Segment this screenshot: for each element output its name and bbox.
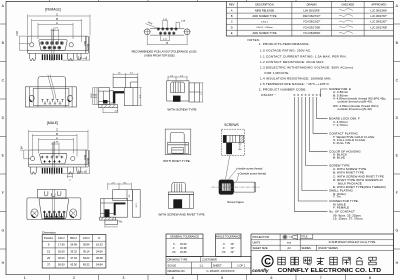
lower side view right tall body <box>132 190 140 218</box>
male right dimension 7.90 <box>86 150 88 165</box>
svg-text:LJC 05/13/06': LJC 05/13/06' <box>371 8 388 12</box>
pcb pads top row <box>157 28 177 31</box>
zone letters left A-H <box>1 4 4 265</box>
svg-text:±0.60: ±0.60 <box>180 242 187 246</box>
svg-text:Outside screw thread: Outside screw thread <box>240 172 267 176</box>
REVISION TABLE <box>226 2 393 37</box>
svg-text:1.4 INSULATION RESISTANCE: 100: 1.4 INSULATION RESISTANCE: 1000MΩ MIN. <box>260 77 332 81</box>
svg-text:1: 1 <box>24 276 26 280</box>
svg-text:connfly: connfly <box>252 268 269 273</box>
screw type top dims <box>168 76 187 81</box>
svg-text:A4: A4 <box>287 246 291 250</box>
female solder pin comb <box>42 54 63 60</box>
screw type screw profile <box>171 82 185 93</box>
dimension table grid <box>42 235 106 269</box>
zone tick marks top <box>49 0 345 2</box>
general tolerance box <box>166 234 203 257</box>
male right dimension 12.50 <box>62 150 89 174</box>
svg-text:1:1: 1:1 <box>199 263 203 267</box>
side view top dims <box>113 73 138 78</box>
rivet view inner insert <box>172 148 184 154</box>
dimension table row 37 <box>47 263 103 267</box>
svg-text:YCH 09/21/07': YCH 09/21/07' <box>303 20 321 24</box>
svg-text:63.50: 63.50 <box>70 263 77 267</box>
svg-text:1.3 DIELECTRIC WITHSTANDING VO: 1.3 DIELECTRIC WITHSTANDING VOLTAGE: 500… <box>260 66 353 70</box>
svg-text:DRAWING TYPE: DRAWING TYPE <box>168 258 188 262</box>
bottom view pins row 2 <box>44 101 61 104</box>
pcb pad leader phi 0.8 <box>146 24 159 29</box>
side view pcb board <box>99 105 118 108</box>
svg-text:6: 6 <box>270 276 272 280</box>
svg-text:F: F <box>396 191 398 195</box>
pcb B dimension <box>147 35 187 45</box>
svg-text:24.99: 24.99 <box>70 243 77 247</box>
svg-text:1.1 CONTACT CURRENT RATING: 1.: 1.1 CONTACT CURRENT RATING: 1.5A MAX. PE… <box>260 55 347 59</box>
revision row A <box>231 8 388 12</box>
svg-text:C: C <box>56 128 58 132</box>
bottom view outer shell <box>25 87 76 107</box>
svg-text:DWJ 06/27/07': DWJ 06/27/07' <box>303 14 321 18</box>
svg-text:Φ1±.40: Φ1±.40 <box>79 171 87 174</box>
svg-text:SHEET: SHEET <box>213 263 222 267</box>
tree drop line 5 color of housing <box>309 97 327 151</box>
zone letters right A-H <box>395 4 398 265</box>
screw rivet head <box>172 183 186 193</box>
screws shaft section <box>226 143 232 155</box>
svg-text:.X: .X <box>222 246 225 250</box>
connfly circular logo <box>262 255 273 266</box>
svg-text:ADD SCREW TYPE: ADD SCREW TYPE <box>252 14 276 18</box>
svg-text:.XX: .XX <box>221 250 225 254</box>
svg-text:CUSTOMER: CUSTOMER <box>202 258 217 262</box>
zone tick marks right <box>394 24 400 249</box>
svg-text:C−DS1037−XXXXXXXX: C−DS1037−XXXXXXXX <box>206 269 234 273</box>
screws dim mark <box>238 144 241 150</box>
dimension A line <box>38 23 73 39</box>
mating face bottom band <box>44 218 65 220</box>
left dimension 2.84 <box>19 36 30 50</box>
pcb pads bottom row <box>159 32 175 35</box>
svg-text:CHECKED: CHECKED <box>341 3 354 7</box>
svg-text:D: D <box>231 25 233 29</box>
rivet view rivet head <box>170 132 184 142</box>
svg-text:±0.25: ±0.25 <box>180 250 187 254</box>
svg-text:T: Tin: T: Tin <box>333 195 341 199</box>
svg-text:X: X <box>316 93 318 97</box>
screw shaft <box>234 182 256 192</box>
svg-text:DRAWING NO.: DRAWING NO. <box>168 269 186 273</box>
WITH SCREW TYPE SIDE VIEW <box>167 75 204 111</box>
svg-text:Screw figure: Screw figure <box>227 200 244 204</box>
screws head section <box>223 135 240 142</box>
WITH SCREW AND RIVET TYPE SIDE VIEW <box>158 183 204 217</box>
svg-text:SCALE: SCALE <box>168 263 177 267</box>
svg-text:SERIES: SERIES <box>301 246 311 250</box>
RIGHT ANGLE SIDE VIEW UPPER <box>91 73 142 113</box>
male leg dim 2 <box>67 175 72 179</box>
male left screw hole <box>30 157 34 161</box>
lower side view foot <box>105 220 118 224</box>
male left bracket leg <box>30 167 36 174</box>
male pins top row <box>41 156 64 159</box>
screw socket U left <box>44 191 48 196</box>
screw type right body <box>189 83 200 102</box>
female left bracket leg <box>30 54 36 61</box>
angle tolerance box <box>216 234 242 257</box>
svg-text:B: B <box>56 17 58 21</box>
svg-text:DESCRIPTION: DESCRIPTION <box>255 3 273 7</box>
svg-text:4.5±0.2→4.80mm: 4.5±0.2→4.80mm <box>256 27 273 29</box>
screw type board lock black <box>173 96 181 102</box>
svg-text:YCH 03/17/08': YCH 03/17/08' <box>303 25 321 29</box>
svg-text:1.2 CONTACT RESISTANCE: 20mΩ M: 1.2 CONTACT RESISTANCE: 20mΩ MAX. <box>260 60 325 64</box>
dimension B line <box>32 19 82 42</box>
svg-text:38.38: 38.38 <box>96 256 103 260</box>
WITH RIVET TYPE SIDE VIEW <box>163 129 191 163</box>
svg-text:24.66: 24.66 <box>96 249 103 253</box>
section cut lines through male view <box>52 142 55 175</box>
FEMALE CONNECTOR FRONT VIEW <box>16 8 90 61</box>
svg-text:X.: X. <box>223 242 226 246</box>
SCREWS CROSS SECTION DETAIL <box>221 123 266 182</box>
pcb right mounting hole <box>184 29 190 35</box>
lower side view front body <box>101 199 128 218</box>
svg-text:7: 7 <box>320 276 322 280</box>
TITLE BLOCK <box>251 234 394 275</box>
svg-text:UNITS: UNITS <box>253 241 261 245</box>
tree drop line 8 screw dim <box>320 89 327 97</box>
chinese company name glyph blocks <box>278 257 376 265</box>
side view rear housing <box>113 78 138 88</box>
svg-text:LJC 06/27/07': LJC 06/27/07' <box>371 14 388 18</box>
side view bent pin <box>113 91 124 103</box>
dimension table row 9 <box>48 243 103 247</box>
svg-text:26.50: 26.50 <box>58 249 65 253</box>
female right screw hole <box>69 43 73 47</box>
mating face trapezoid <box>39 199 69 219</box>
svg-text:DS1037 SERIES: DS1037 SERIES <box>318 246 338 250</box>
screw rivet mid band <box>168 192 193 195</box>
female right dimension 12.50 <box>63 36 90 60</box>
svg-text:mm: mm <box>287 242 291 245</box>
female d-sub trapezoid insert <box>39 39 67 50</box>
svg-text:33.32: 33.32 <box>70 249 77 253</box>
side view 3.2 dim <box>103 108 118 113</box>
side view board lock blob <box>103 100 108 104</box>
bottom view pins row 1 <box>41 99 63 102</box>
screw centerline <box>212 186 260 188</box>
revision table grid <box>226 2 393 37</box>
svg-text:DRAWN: DRAWN <box>307 3 317 7</box>
DIMENSION TABLE <box>42 230 106 268</box>
svg-text:B: B <box>231 14 233 18</box>
tree drop line 6 contact plating <box>313 97 328 133</box>
screw type main body <box>167 81 189 101</box>
svg-text:12.50: 12.50 <box>87 157 90 164</box>
side view right body <box>124 88 138 106</box>
pcb pitch dimension below <box>161 35 170 41</box>
tree drop line 1 no of contact <box>295 97 328 212</box>
svg-text:CONNFLY ELECTRONIC CO. LTD: CONNFLY ELECTRONIC CO. LTD <box>278 268 382 274</box>
FEMALE BOTTOM VIEW <box>25 75 76 107</box>
svg-text:39.14: 39.14 <box>83 249 90 253</box>
screw socket U middle <box>52 193 55 196</box>
svg-text:Inside screw thread: Inside screw thread <box>238 166 263 170</box>
dimension table row 25 <box>47 256 103 260</box>
svg-text:1.0 VOLTAGE RATING: 250V AC.: 1.0 VOLTAGE RATING: 250V AC. <box>260 48 311 52</box>
svg-text:53.04: 53.04 <box>83 256 90 260</box>
rivet view lower body <box>168 145 189 154</box>
pcb pitch dimensions above <box>163 20 180 28</box>
svg-text:69.32: 69.32 <box>83 263 90 267</box>
tree drop line 2 connector type <box>298 97 327 201</box>
mating face right screw <box>70 209 77 218</box>
svg-text:15: 15pos. 37: 37pos.: 15: 15pos. 37: 37pos. <box>333 217 364 221</box>
male left dimension 2.84 <box>24 150 31 159</box>
screws detail box <box>221 129 244 155</box>
svg-text:C±0.2: C±0.2 <box>83 236 90 240</box>
svg-text:5: 5 <box>221 276 223 280</box>
bottom view insulator outline <box>33 89 69 106</box>
svg-text:LJC 03/17/08': LJC 03/17/08' <box>371 25 388 29</box>
female right bracket leg <box>68 54 74 61</box>
male pins bottom row <box>43 160 61 163</box>
male solder pin comb <box>42 168 63 174</box>
revision table header <box>229 3 386 7</box>
svg-text:D-SUB RIGHT ANGLE(7.2mm) TYPE: D-SUB RIGHT ANGLE(7.2mm) TYPE <box>329 240 376 244</box>
svg-text:5.8±0.2: 5.8±0.2 <box>261 21 269 23</box>
svg-text:WITH RIVET TYPE: WITH RIVET TYPE <box>163 159 190 163</box>
svg-text:WITH SCREW TYPE: WITH SCREW TYPE <box>167 108 196 112</box>
lower side view board lock blob <box>105 209 110 217</box>
svg-text:8: 8 <box>369 276 371 280</box>
svg-text:3: 3 <box>122 276 124 280</box>
svg-text:F: F <box>2 191 4 195</box>
revision row D <box>231 25 388 29</box>
male boardlock pin <box>77 167 81 173</box>
svg-text:16.33: 16.33 <box>96 243 103 247</box>
svg-text:C: C <box>231 20 233 24</box>
title block outline <box>251 234 394 275</box>
male right screw hole <box>71 157 75 161</box>
svg-text:6: FULL TIN: 6: FULL TIN <box>333 141 350 145</box>
projection symbol <box>282 235 297 240</box>
PCB LAYOUT RECOMMENDATION VIEW <box>132 19 197 58</box>
zone tick marks left <box>0 24 6 249</box>
bottom view right hole <box>68 95 73 101</box>
svg-text:X: X <box>297 93 299 97</box>
svg-text:12.50: 12.50 <box>87 43 90 50</box>
svg-text:17.90: 17.90 <box>58 243 65 247</box>
svg-text:PROJECTION: PROJECTION <box>253 235 270 239</box>
svg-text:WITH SCREW AND RIVET TYPE: WITH SCREW AND RIVET TYPE <box>158 213 204 217</box>
female boardlock pin <box>77 54 81 60</box>
svg-text:A: A <box>56 136 58 140</box>
mating face section lines <box>52 189 55 219</box>
revision row B <box>231 14 388 18</box>
svg-text:[MALE]: [MALE] <box>47 121 58 125</box>
bottom view ear divisions <box>30 87 73 107</box>
TOLERANCE BLOCK <box>166 234 251 275</box>
screw rivet black block <box>173 199 182 208</box>
tree drop line 3 shell plating <box>302 97 328 191</box>
bottom view rear hood <box>38 77 66 87</box>
zone tick marks bottom <box>49 275 345 280</box>
mating face body <box>27 198 81 220</box>
svg-text:ANGLE TOLERANCE: ANGLE TOLERANCE <box>216 235 242 239</box>
tree drop line 4 screw type <box>306 97 328 166</box>
PRODUCT CODE TREE LINES <box>295 89 328 212</box>
rivet view mid band <box>168 142 189 145</box>
lower side view rear housing <box>113 190 133 201</box>
svg-text:X: X <box>312 93 314 97</box>
svg-text:D: D <box>98 236 100 240</box>
svg-text:SCREWS: SCREWS <box>224 123 239 127</box>
svg-text:Dimension: Dimension <box>42 230 56 234</box>
pcb outline band <box>150 28 184 35</box>
svg-text:SHEET SIZE: SHEET SIZE <box>253 246 268 250</box>
svg-text:LJH 05/13/06': LJH 05/13/06' <box>303 8 320 12</box>
svg-text:G: G <box>395 229 398 233</box>
screws nut hatched <box>240 135 244 142</box>
dimension table header row <box>44 236 100 240</box>
revision row E <box>231 31 321 35</box>
bottom view left hole <box>29 95 34 101</box>
svg-text:A±0.2: A±0.2 <box>58 236 65 240</box>
svg-text:G: G <box>1 229 4 233</box>
svg-text:A: A <box>56 21 58 25</box>
svg-text:±0.38: ±0.38 <box>180 246 187 250</box>
svg-text:7: 3.70mm: 7: 3.70mm <box>333 123 348 127</box>
male dimension A <box>39 138 74 153</box>
svg-text:C: C <box>264 255 271 266</box>
svg-text:4: 4 <box>172 276 174 280</box>
svg-text:X: X <box>304 93 306 97</box>
svg-text:1. PRODUCTS PERFORMANCE:: 1. PRODUCTS PERFORMANCE: <box>259 42 310 46</box>
svg-text:54.84: 54.84 <box>96 263 103 267</box>
svg-text:(VIEW FROM TOP SIDE): (VIEW FROM TOP SIDE) <box>144 54 175 58</box>
male dimension C <box>29 130 89 150</box>
svg-text:LJC 09/21/07': LJC 09/21/07' <box>371 20 388 24</box>
svg-text:±2°: ±2° <box>231 250 235 254</box>
revision row C <box>231 20 388 24</box>
svg-text:APPROVED: APPROVED <box>371 3 386 7</box>
MATING FACE VIEW WITH SCREWS <box>27 189 81 219</box>
PRODUCT CODE TREE LABELS <box>329 87 386 221</box>
pcb left mounting hole <box>144 29 150 35</box>
female contacts top row <box>41 42 64 45</box>
section cut lines through female view <box>51 29 54 62</box>
screw head black frame <box>219 180 234 195</box>
svg-text:NEW RELEASE: NEW RELEASE <box>255 8 275 12</box>
side view mid block <box>110 91 113 104</box>
svg-text:B: B <box>56 132 58 136</box>
svg-text:E: E <box>231 31 233 35</box>
tree drop line 7 board lock <box>317 97 328 119</box>
drawing info rows box <box>166 257 251 275</box>
svg-text:2: 2 <box>73 276 75 280</box>
lower side view 3.2 dim <box>105 221 122 228</box>
lower side view bent pin <box>114 203 126 216</box>
rivet view right column <box>184 142 186 154</box>
svg-text:A: A <box>231 8 233 12</box>
zone numbers bottom 1-8 <box>24 276 371 280</box>
screw type right dim 7.2 <box>200 83 203 102</box>
svg-text:RECOMMENDED PCB LAYOUT(TOLERAN: RECOMMENDED PCB LAYOUT(TOLERANCE ±0.05) <box>132 49 197 53</box>
svg-text:DS1037 −: DS1037 − <box>261 93 276 97</box>
female contacts bottom row <box>43 46 61 49</box>
dimension 2.77 <box>51 29 59 43</box>
svg-text:2.84: 2.84 <box>21 146 24 151</box>
side view left dims rotated <box>93 88 99 105</box>
screw rivet lower body <box>168 195 193 209</box>
male body shell <box>29 150 89 167</box>
NOTES TEXT BLOCK <box>248 38 354 97</box>
svg-text:1.5 TEMPERATURE RANGE: −45°C~+: 1.5 TEMPERATURE RANGE: −45°C~+105°C. <box>260 82 330 86</box>
svg-text:X: X <box>308 93 310 97</box>
svg-text:REV: REV <box>229 3 235 7</box>
SCREW FIGURE <box>212 180 260 204</box>
svg-text:C: C <box>56 12 58 16</box>
svg-text:X.: X. <box>173 242 176 246</box>
svg-text:2.77: 2.77 <box>54 141 59 144</box>
svg-text:outside thread unj(N-40): outside thread unj(N-40) <box>338 107 372 111</box>
female body shell <box>28 36 89 53</box>
MALE CONNECTOR FRONT VIEW <box>21 121 91 182</box>
RIGHT ANGLE SIDE VIEW LOWER <box>100 182 141 227</box>
mating face left screw <box>31 209 38 218</box>
side view front body <box>99 88 110 105</box>
screw socket U right <box>57 191 61 196</box>
screw sockets housing <box>38 189 67 198</box>
svg-text:.XX: .XX <box>171 250 175 254</box>
svg-text:ADD SCREW TYPE: ADD SCREW TYPE <box>252 31 276 35</box>
svg-text:[FEMALE]: [FEMALE] <box>45 8 61 12</box>
svg-text:X: X <box>293 93 295 97</box>
screw head inner recess <box>222 183 231 191</box>
lower side view top dims <box>108 183 132 190</box>
checked column signature squiggles <box>339 9 353 34</box>
svg-text:±3°: ±3° <box>231 242 235 246</box>
svg-text:47.04: 47.04 <box>70 256 77 260</box>
male right bracket leg <box>67 167 73 174</box>
female right dimension 7.90 <box>86 36 88 51</box>
svg-text:YCH 05/28/09': YCH 05/28/09' <box>303 31 321 35</box>
svg-text:TITLE: TITLE <box>301 236 308 238</box>
lower side view pcb <box>100 217 116 220</box>
svg-text:Φ1±.40: Φ1±.40 <box>80 57 88 60</box>
male d-sub trapezoid <box>40 153 67 164</box>
screw rivet right column <box>189 195 191 209</box>
svg-text:2.84: 2.84 <box>16 30 19 35</box>
svg-text:GENERAL TOLERANCE: GENERAL TOLERANCE <box>170 235 199 239</box>
svg-text:FOR 1 MINUTE.: FOR 1 MINUTE. <box>265 71 290 75</box>
svg-text:30.84: 30.84 <box>83 243 90 247</box>
male dimension 2.77 <box>51 143 59 157</box>
svg-text:2. PRODUCT NUMBER CODE:: 2. PRODUCT NUMBER CODE: <box>259 88 307 92</box>
svg-text:B: BLUE: B: BLUE <box>333 156 345 160</box>
svg-text:Position: Position <box>44 236 54 240</box>
screws leader line <box>226 156 230 179</box>
svg-text:40.00: 40.00 <box>58 256 65 260</box>
dimension table row 15 <box>47 249 103 253</box>
bottom view section cut lines <box>48 75 56 100</box>
side view right dim 7.2 <box>138 88 142 106</box>
rivet view outer bound <box>165 129 191 155</box>
svg-text:±2°: ±2° <box>231 246 235 250</box>
svg-text:56.50: 56.50 <box>58 263 65 267</box>
male dimension B <box>33 134 78 157</box>
